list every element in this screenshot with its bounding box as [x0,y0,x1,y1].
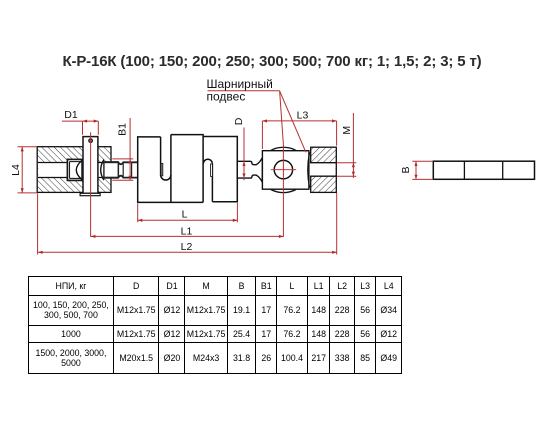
S-cell middle tower [171,135,203,203]
svg-text:L3: L3 [297,110,309,122]
B1 arrows [129,159,132,180]
S-type load cell body: left block [138,137,203,203]
label L4 [10,164,22,176]
label L1 [181,225,193,237]
stub rod D to hinge [237,158,262,183]
L4 arrows [21,147,24,193]
data table [28,276,402,374]
svg-text:L4: L4 [10,164,22,176]
B1 dimension [112,118,133,180]
red arrowheads [21,119,418,254]
label L [182,209,188,221]
svg-text:D1: D1 [64,109,78,121]
side view bar [433,161,534,179]
label B1 [116,123,128,136]
slot 2 (open bottom, rounded top) [203,159,212,201]
label D1 [64,109,78,121]
label M [341,126,353,135]
svg-text:B: B [400,166,412,173]
threaded rod B1 with groove [118,162,138,177]
B arrows [414,161,417,179]
svg-text:D: D [233,117,245,125]
stud end arc between hinge and nut [308,152,310,187]
D arrows [242,161,245,178]
svg-text:M: M [341,126,353,135]
hinge top arc [271,147,296,150]
pin plate (flange) [83,137,98,194]
L dimension [138,203,238,222]
label L2 [181,241,193,253]
plate hole [89,139,92,142]
L2 arrows [38,251,337,254]
label Шарнирный подвес [207,77,273,103]
leader lines [208,91,306,153]
hinge hole horizontal centerline [271,169,296,171]
dimension labels [10,77,412,253]
L4 dimension [18,147,38,193]
right socket box [104,162,118,178]
svg-text:L2: L2 [181,241,193,253]
hinge centerline / L1 right extension [282,146,284,237]
left socket washer [67,159,82,180]
slot 1 gauge tab [161,163,163,175]
slot 1 (open top, rounded bottom) [161,137,171,180]
label D [233,117,245,125]
svg-text:подвес: подвес [207,89,246,103]
slot 2 gauge tab [211,164,213,176]
hinge suspension square [262,151,309,190]
L3 arrows [262,119,336,122]
svg-text:B1: B1 [116,123,128,136]
left ball face arc [76,161,81,180]
L2 dimension [38,193,337,255]
left support block (hatched) [37,147,111,193]
M arrows [352,163,355,177]
right support block (hatched) [311,147,337,192]
label B [400,166,412,173]
S-cell right block [203,137,237,203]
thread channel in right block [310,163,336,177]
M dimension [337,113,356,178]
title [0,53,544,70]
L1 arrows [91,235,284,238]
B dimension (side view) [412,161,433,179]
channel through left block [38,163,112,178]
plate centerline / L1 left extension [90,132,92,237]
plate bottom flange [80,193,100,195]
hinge eye hole [274,160,292,178]
right ball face arc [101,160,104,181]
L arrows [138,219,238,222]
D dimension [243,128,245,181]
L1 dimension [91,235,284,237]
svg-text:L1: L1 [181,225,193,237]
svg-text:L: L [182,209,188,221]
D1 dimension [62,121,98,135]
D1 arrows [83,120,99,123]
L3 dimension [262,121,336,149]
hinge bottom arc [271,190,296,193]
label L3 [297,110,309,122]
